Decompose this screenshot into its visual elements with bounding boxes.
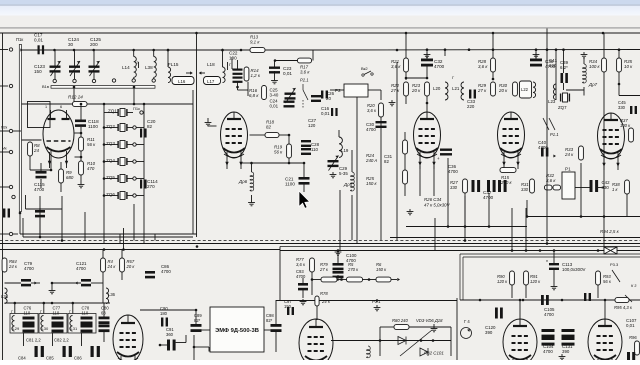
capacitor C100 <box>333 263 344 266</box>
crystal ZQ4 <box>120 158 125 166</box>
svg-text:30: 30 <box>68 42 74 47</box>
resistor R38 <box>625 180 630 194</box>
svg-text:П1к: П1к <box>133 106 140 111</box>
terminal under C124 <box>73 79 76 82</box>
wire R77 dn <box>311 272 313 295</box>
svg-text:110: 110 <box>311 147 319 152</box>
svg-text:150: 150 <box>34 69 42 74</box>
wire V8 anode <box>519 300 521 326</box>
vertical wire ladder right <box>143 104 145 200</box>
wire R17 left <box>275 60 298 62</box>
svg-text:27 к: 27 к <box>319 267 329 272</box>
capacitor C23 <box>269 67 280 69</box>
resistor R10 <box>79 161 84 175</box>
terminal ZQ1 <box>140 111 143 114</box>
wire C98 <box>275 300 277 324</box>
svg-text:24 к: 24 к <box>321 299 331 304</box>
ground over C38 <box>535 52 537 55</box>
wire C78 stub <box>72 303 74 314</box>
svg-text:L30: L30 <box>42 326 49 331</box>
wire drop x104c <box>103 196 105 244</box>
inductor L38 <box>154 57 157 78</box>
resistor R81 <box>315 296 319 306</box>
tube V5 <box>598 113 625 159</box>
wire drop x340 <box>339 240 341 251</box>
wire C17 to bus <box>24 49 38 51</box>
wire drop x435 <box>434 218 436 251</box>
svg-text:330: 330 <box>450 185 458 190</box>
choke Dr7 <box>583 64 587 83</box>
tube V1 <box>43 110 74 158</box>
box around V1 input <box>28 102 51 128</box>
wire C115 <box>30 169 52 171</box>
nodes on main bus <box>167 48 621 51</box>
node on rod <box>73 86 76 89</box>
crystal ZQ5 <box>120 175 125 183</box>
wire R67 dn <box>121 250 123 259</box>
svg-text:120: 120 <box>308 123 316 128</box>
node ladder ZQ2 <box>103 126 106 129</box>
inductor L19 <box>339 137 342 157</box>
wire drop x526 <box>525 208 527 251</box>
wire y163 to C21 <box>252 162 305 164</box>
svg-text:10 к: 10 к <box>624 64 633 69</box>
capacitor C77 <box>52 317 64 320</box>
node bus <box>196 245 199 248</box>
wire bus y250 <box>280 250 640 252</box>
wire under C21 <box>303 183 305 193</box>
svg-text:200: 200 <box>90 42 98 47</box>
node C125 <box>92 49 95 52</box>
svg-text:ZQ4: ZQ4 <box>106 158 115 163</box>
resistor R21 <box>404 58 409 72</box>
terminal under C125 <box>92 79 95 82</box>
wire C76 stub <box>14 303 16 314</box>
ground over Dr7 <box>583 52 585 55</box>
ground under Dr6 <box>251 200 253 203</box>
trimmer capacitor C25 <box>285 93 296 95</box>
wire ZQ5 to right <box>137 178 145 180</box>
wire ZQ4 right <box>127 161 133 163</box>
capacitor C104 <box>542 329 555 332</box>
svg-text:24 к: 24 к <box>107 264 117 269</box>
svg-text:C86: C86 <box>74 356 82 361</box>
wire drop x357 <box>356 150 358 244</box>
resistor R29 <box>491 82 496 96</box>
svg-text:4700: 4700 <box>543 349 553 354</box>
terminal left edge low <box>9 232 12 235</box>
resistor R23 <box>425 82 430 96</box>
svg-text:360: 360 <box>166 332 174 337</box>
svg-text:P2.1: P2.1 <box>300 78 309 83</box>
capacitor C28b <box>301 148 311 150</box>
svg-text:100: 100 <box>229 56 237 61</box>
wire ZQ1 <box>104 112 118 114</box>
node ladder ZQ4 <box>103 160 106 163</box>
svg-text:4700: 4700 <box>448 169 458 174</box>
wire C124 stub <box>74 50 76 66</box>
wire y226 <box>406 226 527 228</box>
wire ZQ3 to right <box>137 144 145 146</box>
svg-text:L36: L36 <box>108 292 116 297</box>
tube V2 <box>221 112 248 158</box>
terminal ZQ4 <box>133 160 136 163</box>
wire C123 stub <box>54 50 56 66</box>
svg-text:L17: L17 <box>207 79 215 84</box>
svg-text:0,01: 0,01 <box>321 111 330 116</box>
svg-text:L18: L18 <box>207 62 215 67</box>
ground P3.1 <box>376 305 378 308</box>
resistor R34 <box>602 58 607 72</box>
capacitor C20 <box>140 129 142 138</box>
wire P2 right <box>368 89 381 91</box>
vertical wire x547 <box>546 29 548 244</box>
svg-text:L14: L14 <box>122 65 130 70</box>
svg-text:R80 240: R80 240 <box>392 318 409 323</box>
resistor R5 <box>347 277 363 282</box>
capacitor C79 <box>21 279 31 282</box>
wire left stub top <box>0 49 8 51</box>
capacitor C38 <box>530 59 542 62</box>
svg-text:330: 330 <box>521 187 529 192</box>
svg-text:L21: L21 <box>452 86 460 91</box>
wire V1 right <box>75 132 82 134</box>
wire top bus <box>0 32 640 34</box>
svg-text:4700: 4700 <box>76 266 86 271</box>
vertical wire ladder left <box>103 104 105 196</box>
wire ZQ4 left <box>104 161 118 163</box>
resistor R16 <box>262 86 267 100</box>
svg-text:24 к: 24 к <box>564 152 574 157</box>
node L38 <box>152 49 155 52</box>
arrow to rod <box>20 49 23 52</box>
svg-text:Вк2: Вк2 <box>361 66 368 71</box>
vertical wire x197 <box>196 33 198 237</box>
capacitor C97 <box>287 307 289 315</box>
ground near C97 <box>302 299 304 302</box>
capacitor C24 <box>284 101 295 103</box>
arrow C121 <box>75 282 78 285</box>
svg-text:240 A: 240 A <box>365 158 377 163</box>
svg-text:100 к: 100 к <box>620 123 631 128</box>
choke small <box>367 346 371 358</box>
capacitor C114 <box>140 180 142 189</box>
capacitor C27 <box>311 95 321 97</box>
resistor R6 <box>376 277 391 282</box>
vertical wire left edge <box>2 33 4 360</box>
svg-text:4700: 4700 <box>483 195 494 200</box>
wire C77 stub <box>43 303 45 314</box>
wire term low <box>0 233 9 235</box>
svg-text:150 к: 150 к <box>376 267 387 272</box>
svg-text:120 к: 120 к <box>530 279 541 284</box>
wire ZQ2 right <box>127 127 133 129</box>
wire drop x465 <box>464 196 466 241</box>
ground under C29 <box>332 172 334 175</box>
svg-text:6,8 к: 6,8 к <box>249 93 259 98</box>
resistor R15 <box>500 168 516 173</box>
wire drop x120 <box>119 234 121 244</box>
svg-text:82*: 82* <box>266 318 273 323</box>
svg-text:C84: C84 <box>18 356 26 361</box>
wire R91 dn <box>525 285 527 298</box>
terminal ZQ6 <box>133 194 136 197</box>
wire V7 anode <box>316 306 318 320</box>
tube V6 <box>113 315 143 363</box>
switch P1.1 <box>543 118 549 130</box>
wire x40 up <box>39 196 41 210</box>
node on top bus <box>405 32 605 35</box>
capacitor C36c <box>472 180 475 192</box>
wire drop x155 <box>154 234 156 241</box>
capacitor C42 <box>590 180 593 192</box>
capacitor C131 <box>562 329 575 332</box>
ground above C100 <box>337 250 339 253</box>
terminal under L38 <box>152 79 155 82</box>
svg-text:L23: L23 <box>548 99 556 104</box>
vertical wire x602 low <box>603 95 605 251</box>
svg-text:330: 330 <box>618 105 626 110</box>
filter2 inductor L30 <box>41 316 44 332</box>
tube V7 <box>299 319 333 365</box>
wire ZQ3 right <box>127 144 133 146</box>
svg-text:24: 24 <box>33 148 39 153</box>
capacitor C81 <box>35 346 38 357</box>
svg-text:680: 680 <box>66 175 74 180</box>
svg-text:L19: L19 <box>341 148 349 153</box>
svg-text:1100: 1100 <box>88 124 98 129</box>
svg-text:P3.1: P3.1 <box>372 299 381 304</box>
capacitor C mid left <box>35 210 45 213</box>
wire P2 left <box>330 89 344 91</box>
svg-text:3,6 к: 3,6 к <box>367 108 377 113</box>
terminal under C123 <box>53 79 56 82</box>
node C123 <box>53 49 56 52</box>
wire C113 <box>553 251 555 264</box>
svg-text:390: 390 <box>562 349 570 354</box>
diode VD5 <box>420 348 428 356</box>
svg-text:6: 6 <box>60 105 62 109</box>
svg-text:R96: R96 <box>629 335 637 340</box>
diode VD3 <box>398 337 406 345</box>
wire bus y246 <box>0 249 280 251</box>
terminal ZQ5 <box>133 177 136 180</box>
title bar bottom line <box>0 5 640 6</box>
vertical wire x457 <box>456 298 458 360</box>
filter2 box <box>39 314 67 334</box>
resistor R19 <box>287 144 292 158</box>
svg-text:6,2*: 6,2* <box>560 65 568 70</box>
wire ZQ3 left <box>104 144 118 146</box>
svg-text:220: 220 <box>467 104 475 109</box>
svg-text:20 к: 20 к <box>498 88 508 93</box>
wire drop x134 <box>133 204 135 241</box>
switch P2.1 <box>302 84 304 90</box>
wire drop x512 <box>511 208 513 251</box>
node ladder ZQ6 <box>103 194 106 197</box>
svg-text:100 к: 100 к <box>589 64 601 69</box>
resistor R14 <box>244 67 249 81</box>
wire y303 left <box>5 302 111 304</box>
svg-text:Мк: Мк <box>2 147 7 151</box>
wire Dr6 <box>241 162 252 164</box>
capacitor C113 <box>549 263 559 265</box>
svg-text:ZQ3: ZQ3 <box>106 141 115 146</box>
svg-text:3,6 к: 3,6 к <box>478 64 488 69</box>
wire ZQ5 left <box>104 178 118 180</box>
fuse R94 <box>604 247 617 254</box>
wire R18 <box>250 134 266 136</box>
wire C41 <box>555 66 557 100</box>
trimmer capacitor C124 <box>69 66 80 68</box>
svg-text:L34: L34 <box>1 294 9 299</box>
resistor R67 <box>120 258 125 272</box>
wire bus y243 <box>0 243 640 245</box>
svg-text:390: 390 <box>485 330 493 335</box>
bridge wires <box>380 326 394 328</box>
arrow C79 <box>34 282 37 285</box>
svg-text:5-35: 5-35 <box>339 171 348 176</box>
ground near R20 <box>391 100 393 103</box>
capacitor C86 <box>145 271 155 274</box>
wire x405 <box>404 132 406 140</box>
capacitor C91 <box>167 340 170 351</box>
capacitor C80 <box>99 317 110 320</box>
browser title bar <box>0 0 640 5</box>
resistor R28 <box>491 58 496 72</box>
svg-text:L16: L16 <box>178 79 186 84</box>
inductor L17 box <box>204 77 221 85</box>
inner box bottom right <box>460 253 640 255</box>
wire box top right <box>280 246 640 248</box>
choke Dr6 <box>250 172 254 191</box>
trimmer capacitor C123 <box>50 66 61 68</box>
capacitor C32 <box>421 59 433 62</box>
inductor L16 box <box>172 77 194 85</box>
svg-text:В1в: В1в <box>42 84 49 89</box>
capacitor C33 <box>469 90 471 99</box>
vertical wire x352 <box>351 150 353 172</box>
wire corner right <box>619 95 640 97</box>
capacitor C115 <box>36 171 47 174</box>
svg-text:ЭМФ 9Д-500-3В: ЭМФ 9Д-500-3В <box>215 328 259 334</box>
choke Dr5 <box>351 172 355 191</box>
svg-text:330: 330 <box>602 185 610 190</box>
svg-text:1: 1 <box>45 105 47 109</box>
capacitor right edge <box>627 352 630 360</box>
wire V3 legs <box>419 166 421 196</box>
ground under C23 <box>274 78 276 81</box>
wire fuse <box>598 250 604 252</box>
resistor R31 <box>530 179 535 193</box>
wire R90 dn <box>511 285 513 298</box>
wire ZQ4 to right <box>137 161 145 163</box>
wire R13 right corner <box>312 50 314 61</box>
svg-text:27 к: 27 к <box>477 88 487 93</box>
svg-text:FL15: FL15 <box>168 62 179 67</box>
svg-text:1,2 к: 1,2 к <box>251 73 261 78</box>
wire ZQ6 left <box>104 195 118 197</box>
svg-text:L20: L20 <box>433 86 441 91</box>
svg-text:270: 270 <box>147 184 155 189</box>
resistor R79 <box>321 277 337 282</box>
filter3 inductor L31 <box>70 316 73 332</box>
wire R19 down <box>288 135 290 144</box>
resistor R32 <box>545 185 553 190</box>
filter1 box <box>10 314 38 334</box>
wire C39 dn <box>563 50 565 73</box>
svg-text:56 к: 56 к <box>603 279 612 284</box>
terminal left 3 <box>9 185 12 188</box>
resistor R95 <box>615 298 629 303</box>
svg-text:56 к: 56 к <box>274 150 283 155</box>
wire R8 down <box>29 156 31 170</box>
vertical wire x104b <box>103 303 105 317</box>
toolbar strip <box>0 16 640 28</box>
svg-text:Дρ5: Дρ5 <box>343 182 353 187</box>
wire ZQ2 to right <box>137 127 145 129</box>
crystal ZQ3 <box>120 141 125 149</box>
tube V4 <box>498 112 525 158</box>
ground under C131 <box>561 354 563 357</box>
inductor L18 <box>223 67 226 83</box>
inductor L22 coil <box>533 82 536 98</box>
terminal antenna bottom <box>9 84 12 87</box>
wire V3 anode <box>426 103 428 112</box>
capacitor C34el <box>440 149 452 151</box>
terminal left 1 <box>9 129 12 132</box>
wire right top <box>526 200 528 217</box>
svg-text:ZQ5: ZQ5 <box>106 175 115 180</box>
wire R21 <box>405 33 407 58</box>
svg-text:П1к: П1к <box>16 37 23 42</box>
svg-text:4700: 4700 <box>161 269 171 274</box>
resistor R26a <box>403 140 408 154</box>
vertical wire x397 <box>396 62 398 240</box>
node bridge <box>379 339 382 342</box>
capacitor C76 <box>23 317 35 320</box>
capacitor C19b <box>233 77 243 79</box>
svg-text:3,6 к: 3,6 к <box>391 64 401 69</box>
tube V8 <box>503 319 537 365</box>
wire R23 down <box>426 96 428 104</box>
capacitor C78 <box>81 317 93 320</box>
wire R93 dn <box>597 285 599 298</box>
arrow after R6 <box>397 278 400 281</box>
wire V9 anode <box>604 300 606 326</box>
capacitor C30 <box>376 121 387 123</box>
wire R4 dn <box>102 250 104 259</box>
capacitor C16 <box>331 108 333 116</box>
node ladder ZQ3 <box>103 143 106 146</box>
wire drop x85 <box>84 212 86 241</box>
inductor L22 box <box>520 81 532 98</box>
capacitor C19a <box>233 69 243 71</box>
capacitor C89 <box>191 324 202 327</box>
resistor R13 <box>250 48 265 53</box>
wire rod tap down <box>73 88 75 104</box>
svg-text:0,01: 0,01 <box>283 71 292 76</box>
resistor R91 <box>524 271 529 285</box>
svg-text:82: 82 <box>384 159 389 164</box>
switch Вк2 <box>362 74 364 76</box>
wire C41 stub <box>555 50 557 67</box>
svg-text:R12 24: R12 24 <box>68 95 83 100</box>
svg-text:3,6 к: 3,6 к <box>300 70 310 75</box>
svg-text:Дρ7: Дρ7 <box>588 82 598 87</box>
wire C23 down <box>274 61 276 67</box>
svg-text:4700: 4700 <box>366 127 376 132</box>
